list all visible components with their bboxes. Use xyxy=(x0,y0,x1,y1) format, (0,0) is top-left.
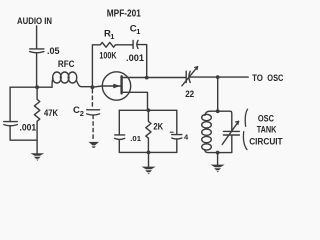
svg-text:AUDIO IN: AUDIO IN xyxy=(17,16,52,26)
svg-text:2K: 2K xyxy=(153,122,163,132)
svg-text:1: 1 xyxy=(136,27,140,36)
svg-text:.001: .001 xyxy=(126,53,144,63)
svg-text:22: 22 xyxy=(185,89,194,99)
svg-text:100K: 100K xyxy=(99,51,116,61)
svg-text:CIRCUIT: CIRCUIT xyxy=(249,137,283,147)
svg-text:RFC: RFC xyxy=(58,59,75,69)
svg-text:2: 2 xyxy=(80,109,84,118)
svg-text:OSC: OSC xyxy=(267,73,283,83)
svg-text:4: 4 xyxy=(184,133,189,142)
svg-text:.01: .01 xyxy=(130,134,141,143)
svg-text:.001: .001 xyxy=(20,122,37,132)
svg-text:.05: .05 xyxy=(47,46,60,56)
svg-text:TO: TO xyxy=(252,73,263,83)
svg-text:MPF-201: MPF-201 xyxy=(107,8,141,20)
svg-text:TANK: TANK xyxy=(257,125,277,135)
svg-text:OSC: OSC xyxy=(258,114,274,124)
svg-text:1: 1 xyxy=(110,32,114,41)
svg-text:47K: 47K xyxy=(44,108,58,118)
